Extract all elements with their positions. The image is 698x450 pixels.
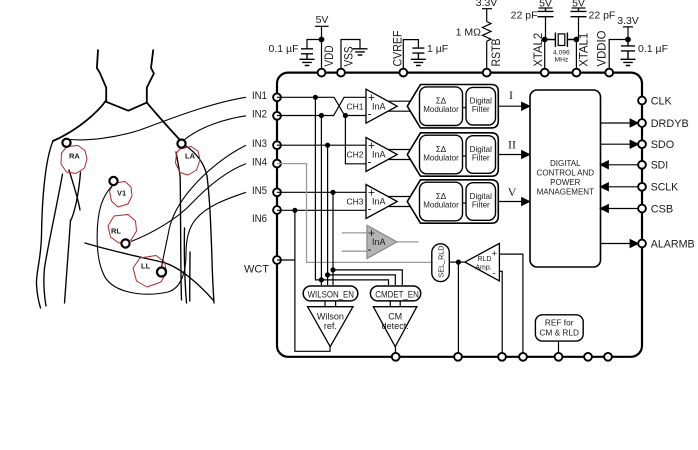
pin CLK <box>638 97 646 105</box>
svg-text:II: II <box>508 138 516 152</box>
svg-text:1 MΩ: 1 MΩ <box>456 27 482 39</box>
pin VDDIO <box>605 69 613 77</box>
body belly curve <box>85 243 214 301</box>
pin IN5 <box>273 188 281 196</box>
svg-text:LA: LA <box>185 152 196 161</box>
pin IN1 <box>273 93 281 101</box>
pin SCLK <box>638 183 646 191</box>
pin WCT <box>273 256 281 264</box>
svg-text:RL: RL <box>111 227 121 236</box>
resistor 1 Mohm <box>483 22 492 42</box>
svg-text:DRDYB: DRDYB <box>651 118 689 130</box>
pin RSTB <box>483 69 491 77</box>
gray wire InA4 plus input <box>342 232 367 234</box>
svg-text:IN3: IN3 <box>252 138 267 150</box>
svg-text:InA: InA <box>372 237 386 247</box>
sigma-delta modulator CH1 <box>420 87 463 126</box>
pin CSB <box>638 205 646 213</box>
pin VSS <box>337 69 345 77</box>
pin IN6 <box>273 206 281 214</box>
ground (VSS) <box>353 49 368 55</box>
crystal 4.096 MHz <box>545 33 577 47</box>
junction dot RLD node <box>456 260 460 264</box>
container CH1 filter <box>407 85 498 128</box>
capacitor 0.1uF (VDDIO) <box>621 40 635 60</box>
electrode RL <box>121 239 129 247</box>
svg-text:Modulator: Modulator <box>423 105 459 114</box>
pin IN4 <box>273 160 281 168</box>
svg-text:InA: InA <box>372 150 386 160</box>
svg-text:RA: RA <box>69 152 80 161</box>
svg-text:XTAL2: XTAL2 <box>533 33 545 67</box>
container CH3 filter <box>407 180 498 223</box>
svg-text:SDI: SDI <box>651 160 669 172</box>
svg-text:Amp.: Amp. <box>475 265 491 272</box>
wire ALARMB out <box>601 243 631 245</box>
electrode V1 <box>109 177 117 185</box>
svg-text:POWER: POWER <box>550 178 580 187</box>
svg-text:0.1 µF: 0.1 µF <box>269 43 299 55</box>
5V rail for VDD <box>315 25 329 27</box>
wire lead II to digital block <box>498 154 522 156</box>
wire SDI in <box>609 164 639 166</box>
wire CH1 minus to CH2 minus <box>345 116 366 164</box>
digital control block <box>530 90 601 267</box>
svg-text:+: + <box>492 249 498 260</box>
svg-text:IN6: IN6 <box>252 213 267 225</box>
svg-text:IN5: IN5 <box>252 185 267 197</box>
svg-text:I: I <box>509 88 513 102</box>
svg-text:V1: V1 <box>117 189 126 198</box>
wire REF block to bottom pin <box>558 341 560 353</box>
pin bottom 7 <box>604 353 612 361</box>
wire CSB in <box>609 208 639 210</box>
body right hip lines <box>184 228 186 303</box>
wire SDO out <box>601 143 631 145</box>
op-amp InA CH3 <box>366 185 397 219</box>
pin XTAL1 <box>573 69 581 77</box>
pin IN3 <box>273 141 281 149</box>
body head outline <box>97 50 106 102</box>
svg-text:CVREF: CVREF <box>393 31 405 67</box>
svg-text:Filter: Filter <box>472 153 490 162</box>
3.3V rail for VDDIO <box>623 27 633 40</box>
svg-text:1 µF: 1 µF <box>427 43 448 55</box>
svg-text:CLK: CLK <box>651 95 673 107</box>
stubs WILSON_EN to Wilson ref <box>325 301 336 307</box>
svg-text:5V: 5V <box>316 14 329 26</box>
svg-text:InA: InA <box>372 101 386 111</box>
wire RLD node to bottom pin <box>457 262 459 353</box>
svg-text:VDDIO: VDDIO <box>597 30 609 66</box>
wire CVREF pin to cap <box>403 40 418 69</box>
wire RLD plus to bottom pin <box>499 254 523 353</box>
svg-text:-: - <box>368 202 372 216</box>
digital filter CH3 <box>466 183 496 221</box>
wire IN6 to CH3 minus <box>277 209 366 211</box>
svg-text:CMDET_EN: CMDET_EN <box>375 289 419 299</box>
svg-text:ALARMB: ALARMB <box>651 238 695 250</box>
pin bottom 6 <box>584 353 592 361</box>
svg-text:CH1: CH1 <box>346 101 363 111</box>
wires CH2 amp to modulator <box>388 150 411 160</box>
junction dot CH1 minus net <box>343 114 347 118</box>
junction dot IN3 tap <box>326 143 330 147</box>
REF for CM & RLD block <box>535 315 583 341</box>
pin VDD <box>318 69 326 77</box>
junction dot IN2 tap <box>319 114 323 118</box>
wire cap to XTAL2 node <box>545 17 546 40</box>
gray wire IN4 to SEL_RLD (RLD drive) <box>277 164 432 263</box>
svg-text:InA: InA <box>372 197 386 207</box>
op-amp InA4 (unused, gray) <box>367 225 397 258</box>
op-amp RLD <box>465 243 500 281</box>
capacitor 0.1uF (VDD) <box>301 49 313 60</box>
wire SEL_RLD to RLD amp <box>449 261 465 263</box>
svg-text:5V: 5V <box>539 0 552 9</box>
svg-text:CM & RLD: CM & RLD <box>539 328 579 338</box>
wire bundle IN5 branch to CMDET <box>333 270 402 285</box>
capacitor 22pF (XTAL2) <box>538 8 554 17</box>
lead wire LL to IN3 <box>162 145 247 267</box>
wire IN1 to CH1 minus (crossing) <box>277 97 366 115</box>
svg-text:SEL_RLD: SEL_RLD <box>436 246 445 278</box>
wire VDDIO pin up <box>609 40 628 69</box>
pin bottom 3 <box>498 353 506 361</box>
electrode blob LA <box>176 147 201 176</box>
body left shoulder <box>53 101 106 142</box>
svg-text:XTAL1: XTAL1 <box>579 33 591 67</box>
wire resistor to RSTB pin <box>486 41 488 69</box>
wire modulator to filter CH2 <box>463 155 467 157</box>
gray wire InA4 output <box>397 241 419 243</box>
svg-text:detect.: detect. <box>382 321 409 331</box>
electrode LA <box>177 140 185 148</box>
stubs CMDET_EN to CM detect <box>390 301 400 307</box>
svg-text:CH3: CH3 <box>346 197 363 207</box>
capacitor 22pF (XTAL1) <box>571 8 587 17</box>
svg-text:3.3V: 3.3V <box>476 0 498 9</box>
arrow SDO <box>630 140 638 148</box>
svg-text:22 pF: 22 pF <box>589 10 616 22</box>
node dot VDDIO <box>626 37 631 42</box>
svg-text:0.1 µF: 0.1 µF <box>638 43 668 55</box>
body left torso <box>71 172 81 221</box>
wire 3.3V to resistor <box>486 9 488 22</box>
svg-text:VSS: VSS <box>344 46 356 66</box>
CMDET_EN block <box>370 286 420 301</box>
lead wire RL to IN4 <box>131 164 246 242</box>
svg-text:Modulator: Modulator <box>423 200 459 209</box>
svg-text:RSTB: RSTB <box>491 38 503 66</box>
svg-text:LL: LL <box>141 262 151 271</box>
arrow CSB <box>601 205 609 213</box>
gray wire InA4 minus input <box>342 250 367 252</box>
svg-text:IN1: IN1 <box>252 90 267 102</box>
op-amp InA CH1 <box>366 89 397 123</box>
svg-text:22 pF: 22 pF <box>511 10 538 22</box>
ground (CVREF cap) <box>411 59 426 65</box>
capacitor 1uF (CVREF) <box>412 48 424 59</box>
junction dot bundle IN2 <box>319 278 323 282</box>
svg-text:VDD: VDD <box>324 46 336 67</box>
svg-text:REF for: REF for <box>545 317 574 327</box>
svg-text:-: - <box>368 106 372 120</box>
pin XTAL2 <box>541 69 549 77</box>
3.3V rail for RSTB <box>482 8 492 10</box>
wire CM detect to bottom pin <box>395 347 397 353</box>
wire node to C 0.1uF <box>307 40 322 49</box>
pin IN2 <box>273 112 281 120</box>
pin bottom 5 <box>555 353 563 361</box>
wire IN3 to CH2 plus <box>277 144 366 146</box>
body right shoulder <box>147 103 180 140</box>
electrode blob RL <box>108 215 137 244</box>
arrow ALARMB <box>630 240 638 248</box>
svg-text:CSB: CSB <box>651 203 674 215</box>
wire IN2 to CH1 plus (crossing) <box>277 97 366 115</box>
svg-text:CH2: CH2 <box>346 150 363 160</box>
ground (VDD cap) <box>300 59 315 65</box>
wire WCT pin to common net <box>277 259 295 261</box>
pin SDO <box>638 140 646 148</box>
pin SDI <box>638 161 646 169</box>
electrode blob LL <box>133 256 167 288</box>
CM detect triangle <box>373 307 417 347</box>
lead wire LA to IN2 <box>184 116 246 140</box>
svg-text:Filter: Filter <box>472 105 490 114</box>
wire modulator to filter CH1 <box>463 107 467 109</box>
svg-text:IN4: IN4 <box>252 156 267 168</box>
pin bottom 4 <box>519 353 527 361</box>
CHANNEL1 <box>366 89 397 218</box>
body right arm <box>186 146 214 303</box>
svg-text:3.3V: 3.3V <box>617 15 639 27</box>
5V rail for XTAL2 cap <box>539 7 553 9</box>
svg-text:WILSON_EN: WILSON_EN <box>308 289 354 299</box>
wires CH1 amp to modulator <box>388 101 411 111</box>
pin ALARMB <box>638 240 646 248</box>
junction dot bundle IN3 <box>326 273 330 277</box>
Wilson ref triangle <box>308 307 353 347</box>
pin bottom 1 <box>392 353 400 361</box>
5V rail for XTAL1 cap <box>572 7 586 9</box>
junction dot IN5 tap <box>331 190 335 194</box>
sigma-delta modulator CH2 <box>420 135 463 174</box>
wire cap to XTAL1 node <box>576 17 578 40</box>
wire bundle IN5 to WILSON_EN <box>332 192 334 285</box>
ground (VDDIO cap) <box>621 59 636 65</box>
wire modulator to filter CH3 <box>463 202 467 204</box>
wire bundle IN1 branch to CMDET <box>315 97 388 285</box>
svg-text:DIGITAL: DIGITAL <box>550 159 581 168</box>
svg-text:V: V <box>508 185 517 199</box>
arrow SCLK <box>601 183 609 191</box>
svg-text:RLD: RLD <box>477 256 491 263</box>
svg-text:Modulator: Modulator <box>423 153 459 162</box>
op-amp InA CH2 <box>366 138 397 172</box>
svg-text:4.096: 4.096 <box>553 50 570 57</box>
wire bundle IN3 branch to CMDET <box>328 275 396 285</box>
lead wire V1 to IN5 around belly <box>97 186 246 295</box>
sigma-delta modulator CH3 <box>420 182 463 221</box>
junction dot IN6 / WCT net <box>293 208 297 212</box>
wire bundle IN2 to WILSON_EN <box>320 116 322 286</box>
digital filter CH1 <box>466 87 496 125</box>
wire WCT net vertical to Wilson apex <box>295 210 330 351</box>
arrow SDI <box>601 161 609 169</box>
wire lead V to digital block <box>498 201 522 203</box>
svg-text:MHz: MHz <box>555 57 569 64</box>
svg-text:MANAGEMENT: MANAGEMENT <box>537 187 594 196</box>
svg-text:IN2: IN2 <box>252 108 267 120</box>
svg-text:-: - <box>368 155 372 169</box>
wire XTAL2 node to pin <box>544 40 546 69</box>
pin CVREF <box>399 69 407 77</box>
body collar <box>106 102 147 111</box>
wire RLD minus to bottom pin <box>499 271 502 353</box>
svg-text:WCT: WCT <box>244 263 269 275</box>
container CH2 filter <box>407 133 498 176</box>
digital filter CH2 <box>466 136 496 174</box>
wire DRDYB out <box>601 122 631 124</box>
svg-text:Filter: Filter <box>472 200 490 209</box>
pin DRDYB <box>638 119 646 127</box>
electrode blob RA <box>61 146 87 174</box>
wire bundle IN3 to WILSON_EN <box>327 145 329 285</box>
wire XTAL1 node to pin <box>575 40 577 69</box>
wire lead I to digital block <box>498 105 522 107</box>
wire VSS pin to ground <box>341 40 360 69</box>
chip outline ADS1293 <box>277 73 642 357</box>
electrode blob V1 <box>110 182 133 208</box>
node dot XTAL2 <box>542 37 547 42</box>
lead wire RA to IN1 <box>70 97 246 140</box>
svg-text:SDO: SDO <box>651 139 675 151</box>
svg-text:5V: 5V <box>572 0 585 9</box>
svg-text:-: - <box>368 242 372 256</box>
wire SCLK in <box>609 186 639 188</box>
SEL_RLD block <box>432 244 450 282</box>
junction dot IN1 tap <box>313 95 317 99</box>
svg-text:CONTROL AND: CONTROL AND <box>537 168 595 177</box>
electrode LL <box>157 268 166 277</box>
arrow DRDYB <box>630 119 638 127</box>
svg-text:-: - <box>493 268 496 279</box>
junction dot bundle IN5 <box>331 268 335 272</box>
svg-text:SCLK: SCLK <box>651 182 679 194</box>
pin bottom 2 <box>454 353 462 361</box>
electrode RA <box>62 139 70 147</box>
wires CH3 amp to modulator <box>388 197 411 207</box>
node dot VDD/cap <box>319 37 324 42</box>
svg-text:ref.: ref. <box>324 321 337 331</box>
wire 5V to VDD pin <box>321 26 323 69</box>
node dot XTAL1 <box>574 37 579 42</box>
wire IN5 to CH3 plus <box>277 191 366 193</box>
WILSON_EN block <box>303 286 358 301</box>
